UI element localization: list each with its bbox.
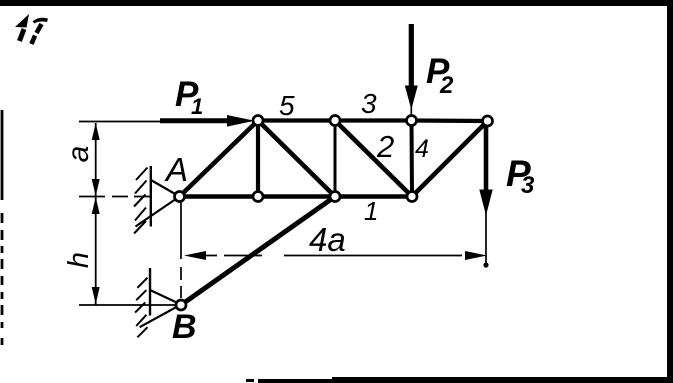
force P1 arrow xyxy=(160,118,238,123)
svg-text:2: 2 xyxy=(439,72,454,99)
force P2 arrow xyxy=(409,24,414,90)
member: diagonal T4-B3 xyxy=(412,121,488,197)
support A: hatching xyxy=(134,168,148,234)
svg-text:5: 5 xyxy=(279,90,295,121)
member: vertical T2-B2 xyxy=(334,121,337,197)
member: bottom chord A-B1 xyxy=(180,194,259,199)
support B: hatching xyxy=(135,278,147,338)
node B2 xyxy=(330,192,340,202)
member 2: diagonal T2-B3 xyxy=(335,121,412,197)
node T2 xyxy=(330,116,340,126)
member: diagonal T1-B2 xyxy=(258,121,335,197)
member 3: top chord T2-T3 xyxy=(335,118,412,122)
dimension 4a left arrowhead xyxy=(184,251,206,260)
node B (support) xyxy=(176,300,186,310)
page frame: left border (partial, dashed) xyxy=(1,110,4,345)
svg-text:4a: 4a xyxy=(309,221,346,258)
page frame: bottom border xyxy=(246,379,254,382)
dimension line a+h (vertical at x=95.7) xyxy=(95,123,97,305)
member: long diagonal B2 to support B xyxy=(181,197,335,306)
member 5: top chord T1-T2 xyxy=(258,118,335,122)
force P3 extension line xyxy=(485,212,487,266)
svg-text:1: 1 xyxy=(191,94,203,119)
member 4: vertical T3-B3 xyxy=(410,121,415,197)
svg-text:a: a xyxy=(62,146,95,163)
support B: wall line xyxy=(149,268,151,316)
dimension 4a right arrowhead xyxy=(465,251,487,260)
dimension a arrowhead down xyxy=(92,179,100,196)
page frame: top border xyxy=(0,0,673,6)
svg-text:3: 3 xyxy=(521,172,535,199)
member: bottom chord B1-B2 xyxy=(258,194,335,199)
figure number 17 xyxy=(15,14,29,28)
dimension h extension tick (bottom, y=305) xyxy=(79,304,176,306)
member: diagonal A-T1 xyxy=(180,121,259,197)
node A (support) xyxy=(175,192,185,202)
dimension line 4a (dash-dot at y=255.5) xyxy=(188,255,462,257)
page frame: right border xyxy=(667,0,673,383)
member 1: bottom chord B2-B3 xyxy=(335,194,412,199)
node T3 xyxy=(407,116,417,126)
node B1 xyxy=(253,192,263,202)
member: vertical T1-B1 xyxy=(256,121,260,197)
dimension tick at bottom chord level (y=196.5) xyxy=(79,196,150,198)
support A: pin triangle upper edge xyxy=(150,180,180,197)
svg-text:2: 2 xyxy=(376,129,394,164)
svg-text:4: 4 xyxy=(415,135,429,163)
svg-text:B: B xyxy=(172,308,197,346)
force P3 arrow xyxy=(484,127,489,192)
dimension h arrowhead up xyxy=(92,197,100,214)
svg-text:1: 1 xyxy=(364,196,378,226)
support B: pin triangle upper edge xyxy=(150,290,181,305)
support A: wall line xyxy=(150,166,152,227)
node T4 xyxy=(483,116,493,126)
support B: pin triangle lower edge (extended) xyxy=(140,305,181,328)
svg-text:A: A xyxy=(164,151,188,188)
extension line A to B (solid then dashed, vertical x=181) xyxy=(180,201,182,298)
support A: pin triangle lower edge (extended) xyxy=(136,197,180,227)
dimension h arrowhead down xyxy=(92,287,100,304)
member: top chord T3-T4 xyxy=(412,118,488,123)
dimension a arrowhead up xyxy=(92,123,100,140)
node B3 xyxy=(407,192,417,202)
node T1 xyxy=(253,116,263,126)
svg-text:h: h xyxy=(63,252,95,268)
svg-text:3: 3 xyxy=(361,88,377,119)
dimension a extension tick (top, y=121.5) xyxy=(79,121,164,123)
